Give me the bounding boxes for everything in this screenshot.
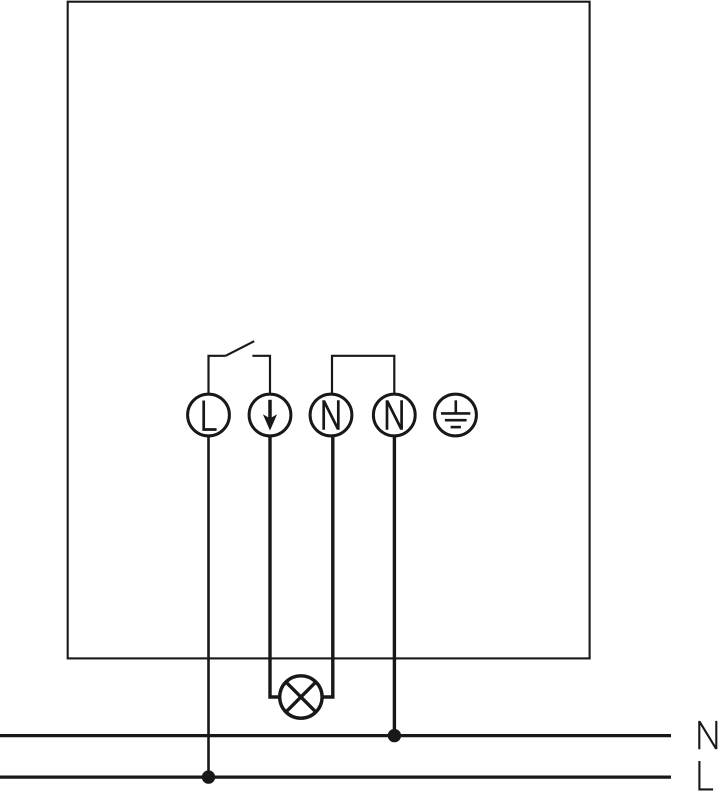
terminal L circle xyxy=(188,394,230,436)
wire: terminal L down to L rail xyxy=(207,435,210,778)
wire: terminal N1 down and left to lamp xyxy=(322,435,333,698)
lamp cross stroke 1 xyxy=(286,682,316,712)
label L for line rail xyxy=(699,761,713,789)
wire: riser from terminal L up to switch left contact xyxy=(209,356,226,395)
wire: terminal N2 down to N rail xyxy=(393,435,396,736)
earth symbol middle bar xyxy=(445,419,467,422)
device enclosure box xyxy=(68,2,590,659)
arrow shaft xyxy=(268,400,272,419)
terminal N1 circle xyxy=(310,394,352,436)
junction dot: L wire on L rail xyxy=(202,770,215,783)
arrow head xyxy=(263,414,277,430)
wire: bracket linking terminal N1 and terminal N2 xyxy=(332,356,394,395)
letter N inside terminal N2 xyxy=(387,400,402,429)
wire: switch right contact down to arrow terminal xyxy=(252,356,270,395)
earth symbol short bar xyxy=(451,426,461,429)
terminal PE (protective earth) circle xyxy=(435,394,477,436)
lamp cross stroke 2 xyxy=(286,682,316,712)
junction dot: N2 wire on N rail xyxy=(388,729,401,742)
L supply rail xyxy=(0,775,671,778)
earth symbol stem xyxy=(454,400,457,413)
terminal N2 circle xyxy=(373,394,415,436)
lamp E1 circle xyxy=(280,676,322,718)
N supply rail xyxy=(0,734,671,737)
terminal arrow (switched output) circle xyxy=(249,394,291,436)
earth symbol long bar xyxy=(441,412,470,415)
switch S1 blade (open) xyxy=(226,341,255,356)
letter L inside terminal xyxy=(204,401,217,430)
wire: arrow terminal down and right to lamp xyxy=(270,435,281,698)
letter N inside terminal N1 xyxy=(324,400,339,429)
label N for neutral rail xyxy=(699,721,716,749)
